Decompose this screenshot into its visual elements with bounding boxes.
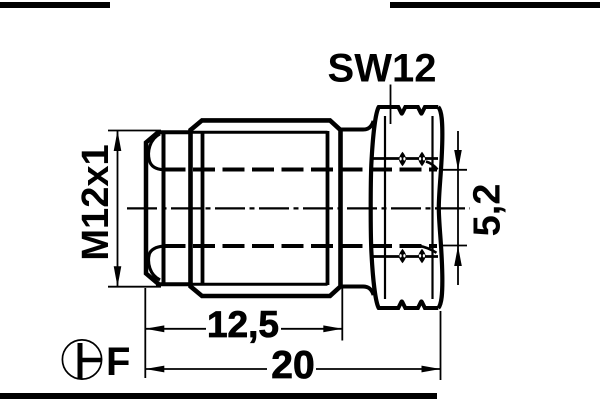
dimension 5,2 extension line bottom xyxy=(440,245,467,247)
svg-text:M12x1: M12x1 xyxy=(75,144,117,260)
leader line SW12 xyxy=(390,85,392,125)
pin hole lens top-left xyxy=(399,152,406,167)
nut crown top edge xyxy=(378,107,439,114)
nose sphere arc bottom xyxy=(149,246,164,280)
pin hole lens bottom-right xyxy=(418,249,425,264)
dashed hole line bottom xyxy=(164,244,438,248)
dimension 20 extension line left continuation xyxy=(144,344,146,378)
svg-text:5,2: 5,2 xyxy=(467,184,509,237)
nose top inner edge xyxy=(156,130,191,134)
svg-text:F: F xyxy=(106,340,130,384)
nut hole line top xyxy=(371,157,438,160)
top-left black bar xyxy=(0,2,110,8)
nut inner line left xyxy=(384,116,386,299)
nose sphere arc top xyxy=(149,134,164,170)
nose bottom inner edge xyxy=(156,282,191,286)
cone-cylinder boundary line xyxy=(162,132,166,284)
centerline axis (dash-dot) xyxy=(127,207,470,209)
dimension 5,2 line xyxy=(457,131,459,285)
neck bottom edge xyxy=(341,287,374,296)
arrow M12x1 bottom xyxy=(114,266,122,287)
bottom black bar xyxy=(0,393,437,399)
arrow 20 right xyxy=(422,366,441,373)
arrow 5,2 bottom xyxy=(454,246,462,266)
arrow 12,5 left xyxy=(145,325,164,332)
pin hole lens top-right xyxy=(418,152,425,167)
nut inner line right xyxy=(431,116,433,299)
F symbol horizontal line xyxy=(80,358,102,363)
nut left edge xyxy=(371,107,379,309)
arrow 12,5 right xyxy=(323,325,342,332)
neck top edge xyxy=(341,121,374,130)
nut right barrel edge xyxy=(438,107,442,308)
arrow M12x1 top xyxy=(114,131,122,152)
dimension 20 line right xyxy=(316,368,441,370)
thread runout line left xyxy=(201,131,205,285)
svg-text:20: 20 xyxy=(271,344,314,387)
dimension M12x1 line xyxy=(117,131,119,287)
svg-text:SW12: SW12 xyxy=(328,47,437,91)
dimension M12x1 extension line top xyxy=(108,130,161,132)
dimension 20 extension line right xyxy=(440,311,442,380)
bore chamfer curve top xyxy=(426,162,438,170)
dashed hole line top xyxy=(164,168,438,172)
dimension 12,5 line right xyxy=(281,328,342,330)
thread runout line right xyxy=(326,131,330,285)
arrow 5,2 top xyxy=(454,150,462,170)
dimension 12,5 line left xyxy=(145,328,206,330)
nut crown bottom edge xyxy=(378,301,439,308)
dimension 12,5 extension line right xyxy=(341,288,343,341)
arrow 20 left xyxy=(145,366,164,373)
top-right black bar xyxy=(390,2,600,8)
F symbol circle xyxy=(62,340,101,379)
svg-text:12,5: 12,5 xyxy=(207,304,279,345)
dimension M12x1 extension line bottom xyxy=(108,286,161,288)
dimension 12,5 extension line left xyxy=(144,288,146,344)
nut hole line bottom xyxy=(371,255,438,258)
thread section rectangle xyxy=(191,120,341,296)
dimension 5,2 extension line top xyxy=(440,169,467,171)
nose cone outline xyxy=(146,132,159,284)
pin hole lens bottom-left xyxy=(399,249,406,264)
bore chamfer curve bottom xyxy=(419,246,437,253)
F symbol vertical line xyxy=(78,343,83,380)
dimension 20 line left xyxy=(145,368,267,370)
